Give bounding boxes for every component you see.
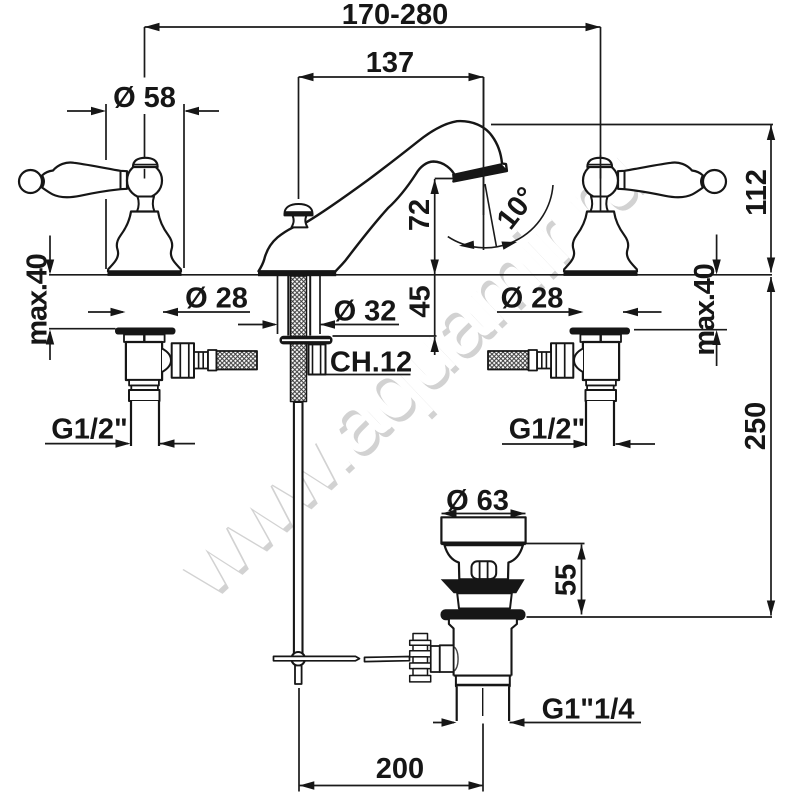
hose hex nut <box>172 343 194 378</box>
spout finial dome <box>285 204 313 215</box>
right handle assembly (mirror) <box>488 158 726 446</box>
svg-text:G1"1/4: G1"1/4 <box>542 694 635 726</box>
right handle centre line through cap <box>600 155 602 211</box>
rod ball joint <box>291 652 305 666</box>
dim 72-45 vertical line <box>434 179 436 355</box>
left handle assembly <box>19 158 257 446</box>
dim O32 <box>238 324 399 326</box>
tee boss arc <box>162 349 171 373</box>
ext line drain centre upper <box>483 77 485 250</box>
ext line drain centre top <box>483 77 485 215</box>
horizontal lever left arm <box>274 656 360 660</box>
svg-text:Ø 32: Ø 32 <box>334 296 397 328</box>
lever collar line <box>120 171 122 189</box>
dim O58 line right part <box>186 110 219 112</box>
ext line O58 left <box>105 104 107 269</box>
dim 200 line <box>299 785 483 787</box>
drain side port <box>440 645 454 672</box>
svg-text:112: 112 <box>741 169 773 216</box>
svg-text:G1/2": G1/2" <box>51 414 128 446</box>
ext line spout centre <box>298 77 300 199</box>
ext line right handle centre <box>600 27 602 158</box>
ext line left handle centre <box>144 27 146 158</box>
tailpiece ring <box>456 676 510 687</box>
drain locknut flange (black) <box>441 609 526 620</box>
svg-text:137: 137 <box>366 47 414 79</box>
dim max40 left line <box>49 236 51 361</box>
svg-text:Ø 28: Ø 28 <box>501 283 564 315</box>
spout body <box>259 121 507 271</box>
deck flange <box>115 328 176 335</box>
drain trumpet <box>445 545 523 579</box>
svg-text:Ø 63: Ø 63 <box>446 485 509 517</box>
drain seal (black) <box>441 579 525 593</box>
braided hose <box>217 351 258 370</box>
spout washer <box>280 336 333 345</box>
handle neck <box>137 197 155 212</box>
dim O63 <box>442 513 526 515</box>
ext line rod centre <box>298 688 300 792</box>
dim 112 line <box>770 125 772 273</box>
svg-text:max.40: max.40 <box>22 254 54 345</box>
spout aerator band <box>453 164 507 182</box>
dim G1/2 right <box>502 443 655 445</box>
ext line spout outlet level <box>435 178 460 180</box>
10deg arc <box>448 185 553 248</box>
lever grip small ball end <box>19 170 42 193</box>
dim 170-280 arrows <box>145 23 601 31</box>
svg-text:250: 250 <box>740 402 772 450</box>
dim O58 line left part <box>67 110 103 112</box>
rod lower tip <box>295 666 302 685</box>
spout base foot band <box>258 271 336 276</box>
tailpiece pipe <box>457 686 509 721</box>
svg-text:45: 45 <box>405 285 437 317</box>
handle ball joint <box>127 163 162 198</box>
drain body <box>449 620 517 676</box>
CH.12 nut <box>309 344 326 374</box>
shank outer tube lines <box>288 276 310 336</box>
lever grip body <box>42 163 127 198</box>
drain port hole arc <box>454 647 458 672</box>
drain top cap <box>441 517 525 543</box>
dim 137 line <box>299 76 484 78</box>
svg-text:55: 55 <box>551 564 583 596</box>
ext lines O32 <box>278 276 321 334</box>
dim 55 line <box>581 545 583 615</box>
PARTS <box>19 121 726 721</box>
dim 170-280 line <box>145 26 601 28</box>
deck reference line <box>49 274 772 276</box>
body steps <box>129 380 159 386</box>
dim O28 right <box>497 311 662 313</box>
svg-text:Ø 28: Ø 28 <box>185 283 248 315</box>
ext line drain cap level <box>527 543 585 545</box>
svg-text:CH.12: CH.12 <box>330 347 412 379</box>
port ferrule <box>431 646 440 672</box>
dim G1/2 left <box>45 443 195 445</box>
dim O28 left <box>88 311 250 313</box>
dim G1"1/4 <box>433 722 641 724</box>
pop-up rod <box>294 402 303 654</box>
svg-text:Ø 58: Ø 58 <box>113 82 176 114</box>
CH12 leader underline <box>315 374 411 376</box>
hose fitting rings <box>194 352 208 369</box>
ext line drain flange level <box>527 616 773 618</box>
drain seat band <box>457 593 512 608</box>
overlay dims drawn above parts <box>484 77 601 250</box>
WATERMARK www.aquamir.ru <box>156 127 665 617</box>
svg-text:72: 72 <box>404 199 436 231</box>
tailpiece centre mark <box>482 688 484 716</box>
ext line washer level <box>333 335 437 337</box>
G1/2 pipe <box>131 401 159 446</box>
spout threaded shank (hatched) <box>291 276 307 402</box>
svg-text:170-280: 170-280 <box>342 0 448 31</box>
10deg slant line <box>485 184 497 247</box>
dim 250 line <box>770 277 772 616</box>
ext line flange level right <box>634 329 727 331</box>
svg-text:200: 200 <box>376 753 424 785</box>
handle bell escutcheon <box>108 212 181 272</box>
knurled wheel <box>410 634 431 682</box>
spout finial stem <box>292 215 308 227</box>
handle cap <box>133 158 158 167</box>
connector ring <box>129 390 160 401</box>
svg-text:max.40: max.40 <box>689 264 721 355</box>
bell foot band <box>108 271 182 276</box>
dim max40 right line <box>716 235 718 367</box>
svg-text:G1/2": G1/2" <box>509 414 586 446</box>
drain plug knob <box>472 561 497 579</box>
horizontal lever right arm <box>365 657 410 662</box>
ext line 112 top (spout apex) <box>491 124 773 126</box>
hose ferrule <box>208 350 217 371</box>
ext line O58 right <box>183 104 185 268</box>
valve body below deck <box>126 342 162 380</box>
ext line flange level left <box>49 328 116 330</box>
handle centre line inside ball <box>144 169 146 179</box>
ext line drain centre bottom <box>482 724 484 792</box>
spacers under flange <box>124 335 144 343</box>
